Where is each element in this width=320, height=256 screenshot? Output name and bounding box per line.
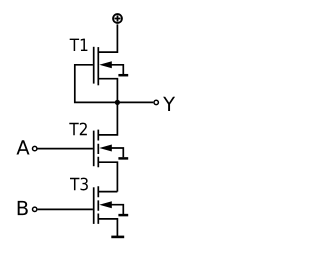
ground [111, 236, 124, 239]
label T3 [70, 178, 88, 191]
label Y [163, 97, 175, 111]
supply terminal VDD [113, 14, 122, 23]
input B wire [38, 208, 93, 210]
terminal Y [154, 100, 158, 104]
transistor T1 (depletion NMOS) [94, 47, 129, 86]
node junction dot [115, 100, 120, 105]
wire T3 drain stub [98, 191, 117, 193]
wire T1 gate feedback loop [75, 65, 118, 103]
label T2 [69, 123, 87, 136]
label T1 [70, 39, 88, 51]
transistor T3 (enhancement NMOS) [94, 186, 129, 224]
wire T1 source to node [98, 79, 117, 103]
wire node to Y [117, 101, 153, 103]
wire T3 source to ground [98, 219, 117, 236]
wire supply to T1 drain [98, 24, 117, 52]
label B [18, 201, 28, 215]
wire T2 source to T3 drain [98, 162, 117, 191]
wire node to T2 drain [98, 102, 117, 134]
input A wire [38, 148, 93, 150]
terminal A [33, 146, 37, 150]
transistor T2 (enhancement NMOS) [94, 130, 129, 168]
label A [17, 140, 30, 154]
terminal B [33, 207, 37, 211]
